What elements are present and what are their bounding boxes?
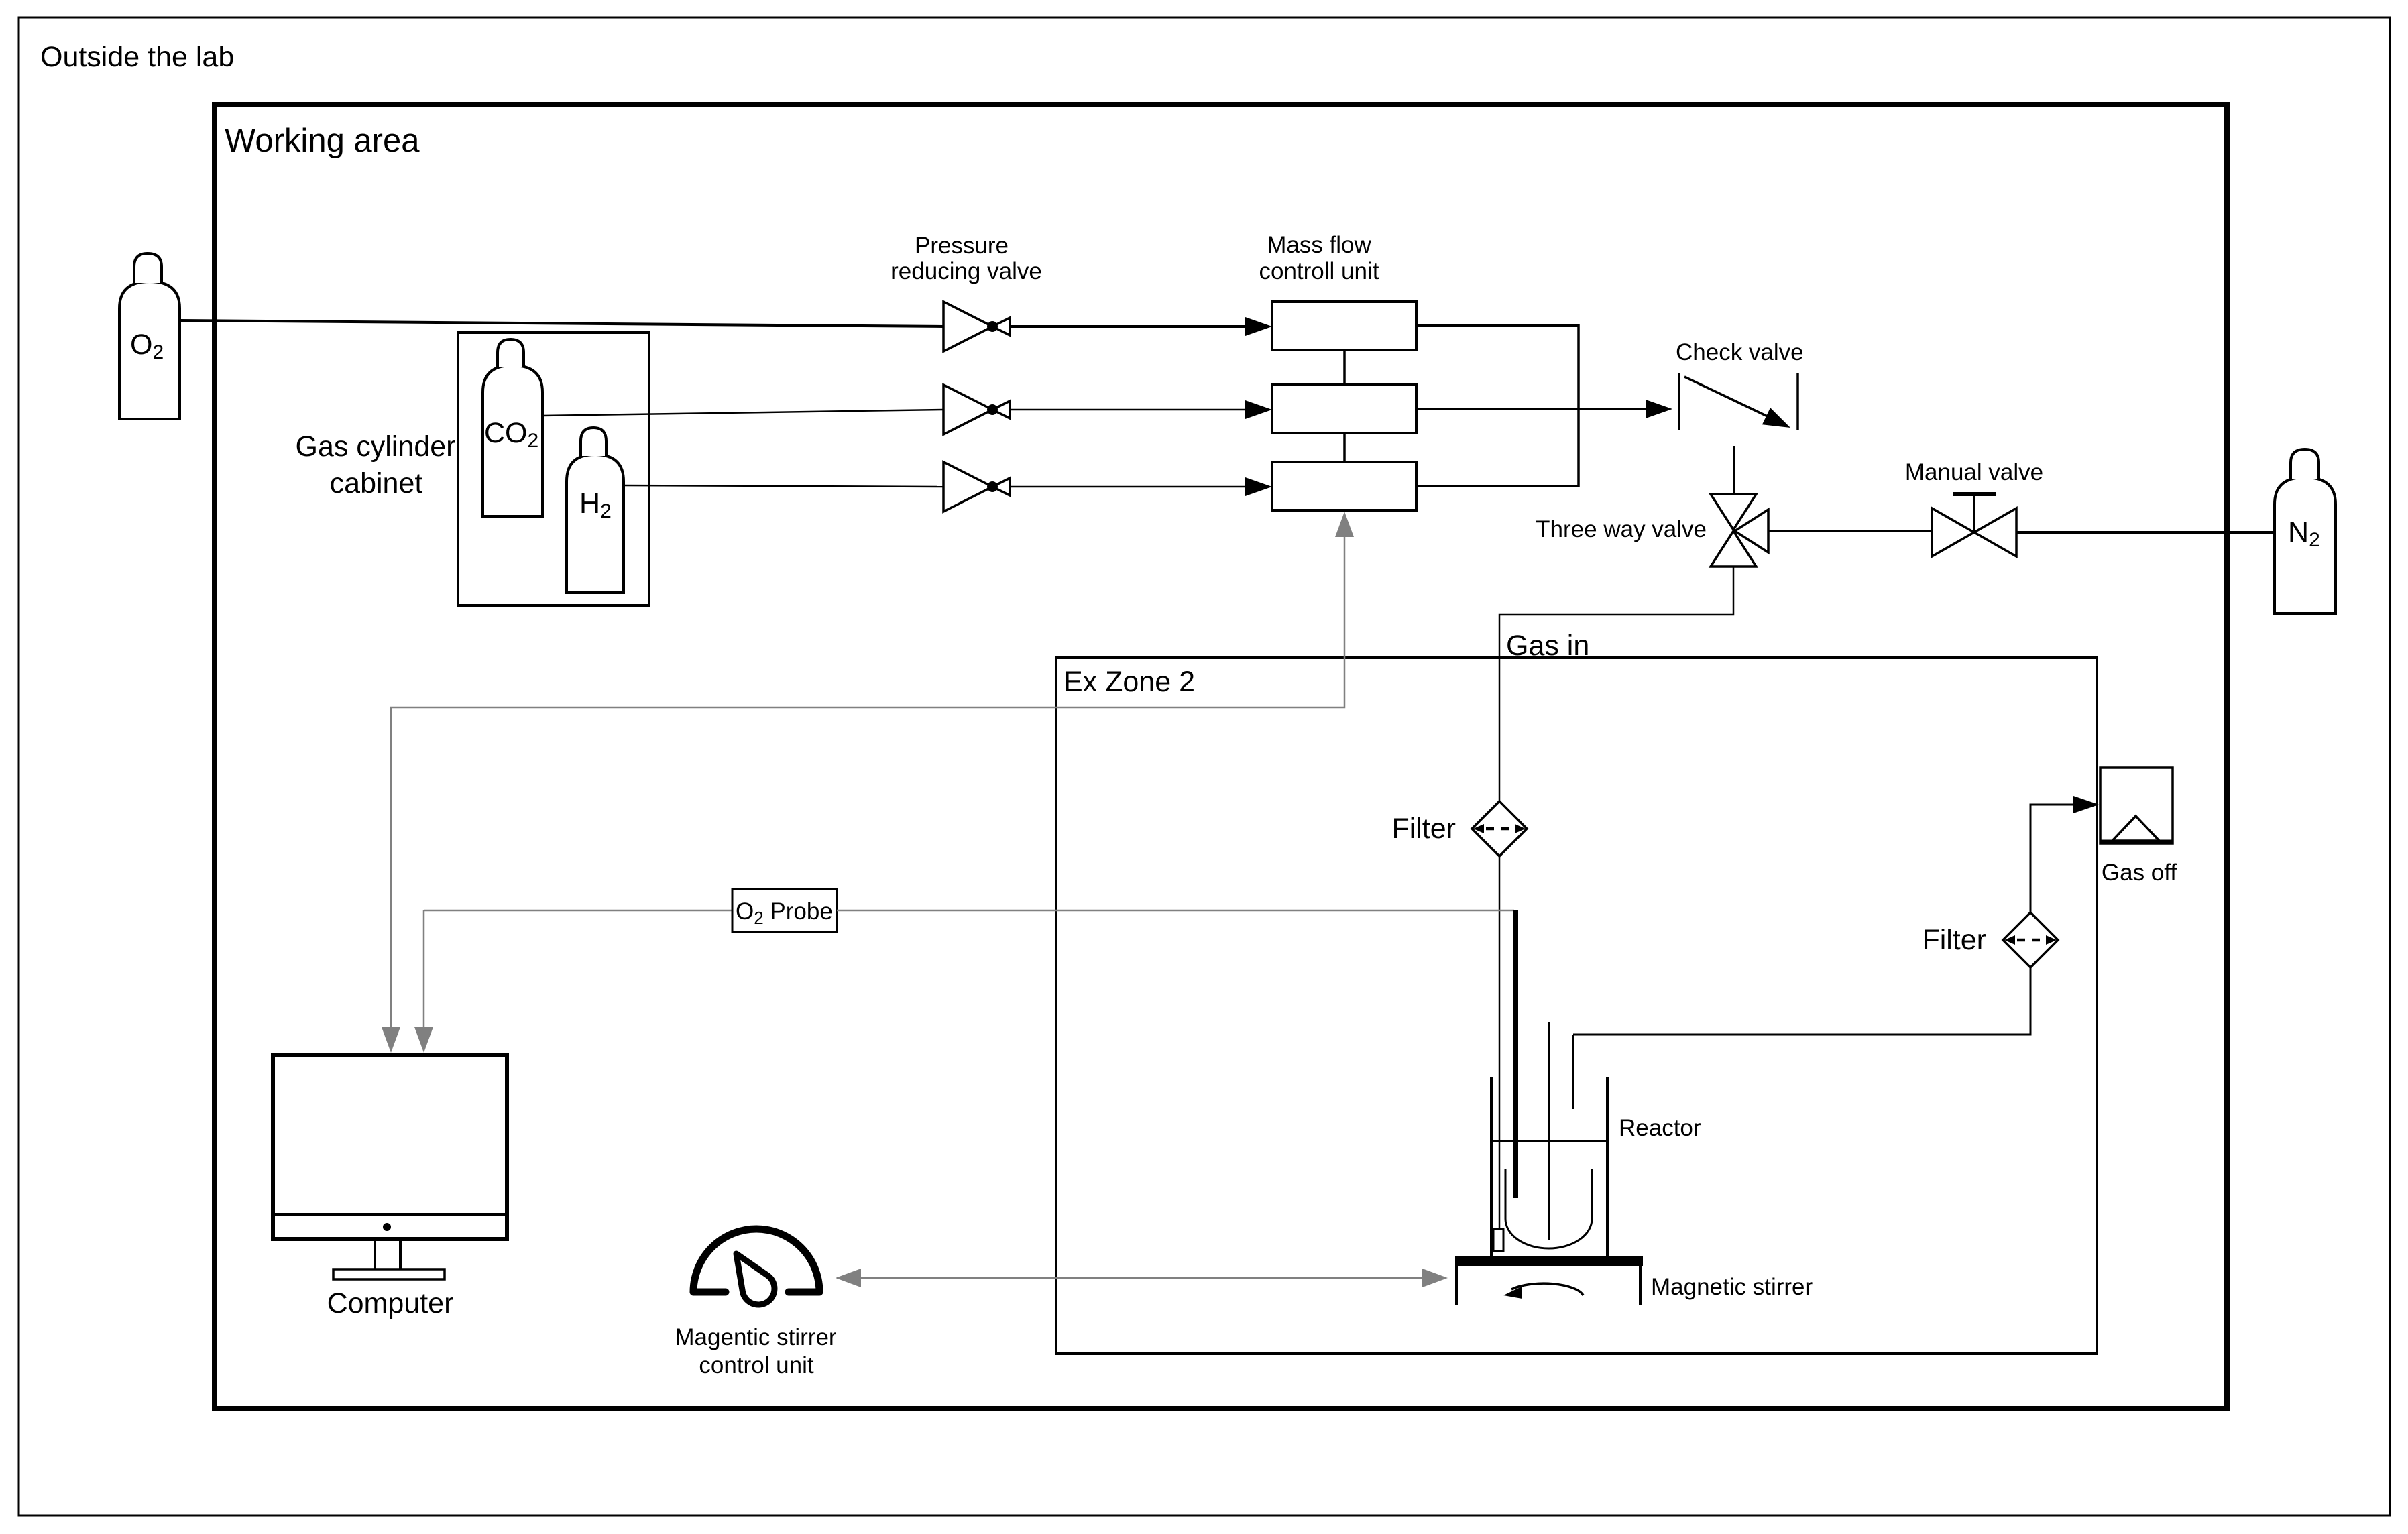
svg-text:control unit: control unit [699,1352,813,1378]
svg-text:O2 Probe: O2 Probe [736,898,833,928]
wire: MFC2 output to check valve with arrow [1416,400,1672,418]
svg-text:Filter: Filter [1922,924,1986,956]
magnetic stirrer plate [1455,1256,1813,1305]
svg-text:Working area: Working area [225,123,420,159]
svg-text:Mass flow: Mass flow [1267,232,1371,258]
wire: H2 pipe to pressure reducing valve 3 [624,485,943,487]
wire: CO2 pipe to pressure reducing valve 2 [542,410,943,416]
wire: three way valve bottom to gas-in line [1499,567,1733,802]
check valve [1679,373,1798,430]
wire: MFC1 output [1416,324,1579,327]
svg-text:Outside the lab: Outside the lab [40,41,234,73]
wire: O2 probe line (computer to probe box) [424,910,732,912]
wire: gas out from reactor to filter 2 [1573,967,2030,1035]
svg-text:reducing valve: reducing valve [891,258,1042,284]
O2 probe box [732,889,837,932]
svg-text:Gas cylinder: Gas cylinder [296,430,456,463]
wire: MFC3 output [1416,485,1579,487]
magnetic stir bar [1493,1229,1503,1251]
wire: MFC2-MFC3 connector [1343,433,1346,462]
svg-text:Magentic stirrer: Magentic stirrer [675,1324,837,1350]
svg-text:Check valve: Check valve [1676,339,1804,365]
wire: gray control from MFC3 down-left to computer [382,512,1354,1053]
pressure reducing valve 1 (O2) [943,302,1010,351]
label: Mass flow controll unit [1259,232,1379,284]
computer (monitor) [273,1055,507,1319]
N2 cylinder [2275,449,2336,613]
working area box [215,105,2227,1409]
wire: valve3 to MFC3 with arrow [1010,477,1272,496]
wire: filter 1 down into reactor (gas dip tube) [1499,857,1501,1230]
svg-text:Computer: Computer [327,1287,454,1319]
mass flow controller unit 2 [1272,385,1416,433]
wire: gray O2-probe branch down to computer [414,910,433,1053]
filter 1 (gas in) [1472,801,1527,856]
wire: valve2 to MFC2 with arrow [1010,400,1272,419]
svg-text:cabinet: cabinet [330,467,423,499]
svg-text:Ex Zone 2: Ex Zone 2 [1064,666,1195,698]
svg-text:Three way valve: Three way valve [1536,516,1707,542]
wire: O2 probe box to reactor probe [837,910,1514,912]
O2 probe rod (thick) [1513,910,1518,1198]
three way valve [1711,494,1768,567]
reactor beaker [1491,1077,1607,1259]
H2 cylinder [567,428,624,593]
svg-text:Pressure: Pressure [915,233,1009,259]
wire: check valve down to three way valve [1733,446,1735,494]
svg-text:controll unit: controll unit [1259,258,1379,284]
manual valve [1932,494,2016,556]
gas cylinder cabinet [296,333,649,605]
svg-text:Gas in: Gas in [1506,630,1589,662]
wire: filter 2 up to gas off with arrow [2030,796,2099,912]
wire: MFC1-MFC2 connector [1343,350,1346,385]
label: Pressure reducing valve [891,233,1042,284]
mass flow controller unit 3 [1272,462,1416,510]
wire: valve1 to MFC1 with arrow [1010,317,1272,336]
stirrer shaft in reactor [1548,1022,1550,1240]
filter 2 (gas off) [2003,912,2058,967]
wire: vertical join of MFC outputs [1577,324,1580,487]
Ex Zone 2 box [1056,658,2097,1354]
wire: gray double arrow between control unit and stirrer [836,1268,1448,1287]
wire: O2 pipe to pressure reducing valve 1 [180,320,943,327]
svg-text:Magnetic stirrer: Magnetic stirrer [1651,1274,1813,1300]
magnetic stirrer control unit (gauge icon) [675,1229,837,1378]
CO2 cylinder [483,339,542,516]
svg-text:Reactor: Reactor [1619,1115,1701,1141]
svg-text:Gas off: Gas off [2102,860,2177,886]
pressure reducing valve 3 (H2) [943,462,1010,512]
mass flow controller unit 1 [1272,302,1416,350]
O2 cylinder [119,253,180,419]
gas off vent box [2100,768,2177,886]
pressure reducing valve 2 (CO2) [943,385,1010,434]
svg-text:Manual valve: Manual valve [1905,459,2043,485]
wire: manual valve to N2 cylinder [2016,531,2275,534]
gas out tube in reactor [1572,1035,1574,1109]
wire: three way valve to manual valve [1768,530,1932,532]
svg-text:Filter: Filter [1391,813,1456,845]
